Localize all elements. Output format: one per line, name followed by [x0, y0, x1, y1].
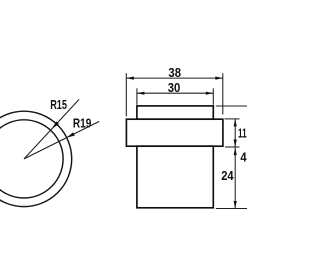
extension line right for 30 — [212, 88, 214, 105]
dimension line 38 — [126, 77, 223, 79]
arrow 30 right — [206, 92, 214, 95]
side view: body rectangle — [137, 146, 213, 208]
R19 arrowhead — [67, 132, 75, 137]
svg-text:11: 11 — [238, 127, 247, 141]
dimension line 30 — [137, 92, 213, 94]
outer circle R19 (top view) — [0, 111, 72, 206]
inner circle R15 (top view) — [0, 120, 63, 198]
extension line cap bottom right for 11 and 24 — [225, 146, 240, 148]
extension line left for 30 — [136, 88, 138, 105]
svg-text:24: 24 — [221, 169, 233, 183]
arrow 24 bottom — [234, 201, 237, 209]
side view: rubber insert top rectangle — [137, 106, 213, 119]
svg-text:38: 38 — [168, 66, 181, 80]
dimension line 24 — [234, 147, 236, 209]
arrow 30 left — [137, 92, 145, 95]
arrow 11 bottom — [234, 140, 237, 148]
extension line bottom for 24 and 40 — [216, 208, 247, 210]
R15 leader line — [24, 99, 79, 158]
arrow 38 left — [126, 77, 134, 80]
R19 leader line — [24, 121, 99, 158]
dimension line 11 — [234, 119, 236, 147]
svg-text:30: 30 — [168, 81, 181, 95]
svg-text:R19: R19 — [73, 116, 92, 130]
R15 arrowhead — [52, 121, 59, 128]
extension line top right for 40 — [216, 105, 247, 107]
svg-text:40: 40 — [240, 150, 247, 164]
extension line right for 38 — [222, 73, 224, 114]
extension line cap top right for 11 — [225, 118, 240, 120]
svg-text:R15: R15 — [50, 98, 67, 112]
arrow 24 top — [234, 148, 237, 156]
arrow 11 top — [234, 119, 237, 127]
side view: cap flange rectangle — [126, 119, 222, 146]
arrow 38 right — [215, 77, 223, 80]
extension line left for 38 — [125, 73, 127, 116]
